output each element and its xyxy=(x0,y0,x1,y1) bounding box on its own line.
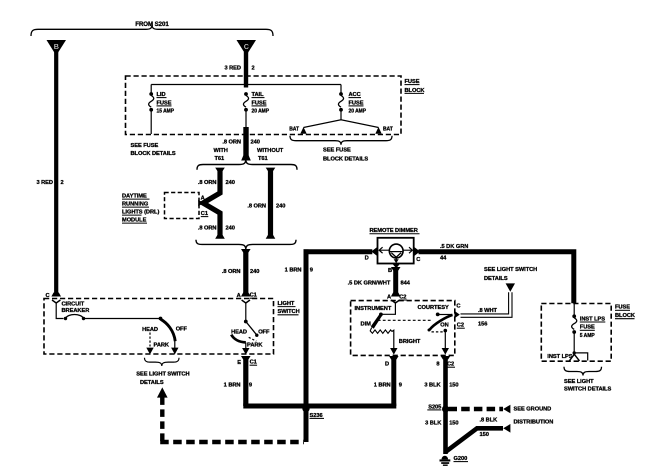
pin 8 / C2 courtesy exit xyxy=(442,348,449,355)
svg-text:BRIGHT: BRIGHT xyxy=(399,339,421,345)
pin E / C1 light switch exit xyxy=(245,343,247,349)
svg-text:150: 150 xyxy=(480,432,489,438)
svg-text:PARK: PARK xyxy=(154,343,170,349)
svg-text:.8 ORN: .8 ORN xyxy=(222,139,241,145)
svg-text:HEAD: HEAD xyxy=(142,327,158,333)
light switch dashed box (instrument/courtesy section) xyxy=(351,301,455,356)
svg-text:3 RED: 3 RED xyxy=(224,66,241,72)
svg-text:15 AMP: 15 AMP xyxy=(157,109,175,115)
svg-text:1 BRN: 1 BRN xyxy=(285,268,302,274)
svg-text:1 BRN: 1 BRN xyxy=(374,382,391,388)
svg-text:240: 240 xyxy=(226,226,235,232)
svg-text:BLOCK DETAILS: BLOCK DETAILS xyxy=(131,151,176,157)
svg-text:INST LPS: INST LPS xyxy=(547,354,572,360)
connector B xyxy=(47,40,67,56)
svg-text:DIM: DIM xyxy=(361,322,372,328)
svg-text:240: 240 xyxy=(276,203,285,209)
splice S236 xyxy=(302,405,309,412)
svg-text:DISTRIBUTION: DISTRIBUTION xyxy=(514,419,554,425)
pin D remote dimmer xyxy=(371,247,377,256)
BAT terminal right xyxy=(375,127,381,134)
inst lps output node xyxy=(573,351,576,354)
wire fuse feed bus xyxy=(151,84,341,86)
svg-text:B: B xyxy=(54,44,59,51)
svg-text:156: 156 xyxy=(478,321,487,327)
svg-text:HEAD: HEAD xyxy=(231,329,247,335)
light switch dashed box (headlamp section) xyxy=(44,299,274,355)
wire .8 ORN 240 left branch (with T61, via DRL) xyxy=(215,168,225,171)
svg-text:9: 9 xyxy=(310,268,313,274)
svg-text:D: D xyxy=(385,361,389,367)
svg-text:240: 240 xyxy=(251,139,260,145)
svg-text:150: 150 xyxy=(449,421,458,427)
svg-text:9: 9 xyxy=(399,382,402,388)
pin B remote dimmer xyxy=(392,264,400,269)
wire .8 WHT 156 (double line) xyxy=(461,292,513,317)
wire .8 BLK 150 branch xyxy=(445,428,503,452)
svg-text:DETAILS: DETAILS xyxy=(484,276,508,282)
arrow to light switch details xyxy=(506,283,515,291)
svg-text:ON: ON xyxy=(440,322,448,328)
wire dashed to light switch details xyxy=(160,397,164,442)
fuse F4 INST LPS 5A xyxy=(573,304,575,316)
svg-text:C: C xyxy=(244,44,249,51)
svg-text:.8 ORN: .8 ORN xyxy=(247,203,266,209)
svg-text:E: E xyxy=(237,360,241,366)
svg-text:240: 240 xyxy=(226,180,235,186)
svg-text:20 AMP: 20 AMP xyxy=(252,109,270,115)
svg-text:SEE LIGHT SWITCH: SEE LIGHT SWITCH xyxy=(484,267,537,273)
arrow to details xyxy=(157,387,168,397)
svg-text:FROM S201: FROM S201 xyxy=(135,21,169,28)
svg-text:.8 ORN: .8 ORN xyxy=(222,269,241,275)
BAT terminal left xyxy=(300,127,306,134)
svg-text:SWITCH DETAILS: SWITCH DETAILS xyxy=(564,386,611,392)
svg-text:WITHOUT: WITHOUT xyxy=(257,148,284,154)
svg-text:.8 BLK: .8 BLK xyxy=(480,417,499,423)
svg-text:OFF: OFF xyxy=(258,329,270,335)
svg-text:BREAKER: BREAKER xyxy=(62,308,90,314)
fuse F3 ACC 20A xyxy=(340,85,342,93)
svg-text:20 AMP: 20 AMP xyxy=(349,109,367,115)
module DRL (daytime running lights) xyxy=(165,193,200,219)
wire .8 ORN 240 (tail fuse output) xyxy=(243,127,248,159)
svg-text:INSTRUMENT: INSTRUMENT xyxy=(355,306,392,312)
svg-text:44: 44 xyxy=(440,255,447,261)
svg-text:844: 844 xyxy=(401,280,411,286)
svg-text:BAT: BAT xyxy=(289,127,299,133)
wire .5 DK GRN 44 xyxy=(419,252,574,303)
wire breaker to switch pivot xyxy=(85,318,161,320)
switch details bracket (left) xyxy=(145,358,180,366)
svg-text:8: 8 xyxy=(436,362,439,368)
svg-text:.8 ORN: .8 ORN xyxy=(198,226,217,232)
svg-text:DETAILS: DETAILS xyxy=(140,380,164,386)
svg-text:2: 2 xyxy=(61,180,64,186)
module U1 remote dimmer xyxy=(378,238,414,264)
wire to bright terminal xyxy=(392,330,394,348)
svg-text:.8 ORN: .8 ORN xyxy=(198,180,217,186)
svg-text:3 BLK: 3 BLK xyxy=(424,382,441,388)
T61 split bracket (top) xyxy=(197,159,297,170)
svg-text:CIRCUIT: CIRCUIT xyxy=(62,301,85,307)
wire dimmer feed down to S236 xyxy=(304,249,309,442)
svg-text:SEE GROUND: SEE GROUND xyxy=(514,406,552,412)
pin A / C2 instrument switch connector xyxy=(391,293,401,297)
svg-text:PARK: PARK xyxy=(247,343,263,349)
svg-text:3 RED: 3 RED xyxy=(36,180,53,186)
svg-text:REMOTE DIMMER: REMOTE DIMMER xyxy=(370,228,418,234)
svg-text:SEE LIGHT SWITCH: SEE LIGHT SWITCH xyxy=(136,372,189,378)
svg-text:G200: G200 xyxy=(454,456,468,462)
svg-text:A: A xyxy=(387,294,391,300)
wire dimmer horizontal run xyxy=(304,249,373,254)
switch SW1 head/off/park xyxy=(159,317,163,321)
pin A / C1 light switch connector xyxy=(241,293,251,297)
svg-text:COURTESY: COURTESY xyxy=(418,305,449,311)
svg-text:3 BLK: 3 BLK xyxy=(425,421,442,427)
svg-text:OFF: OFF xyxy=(176,326,188,332)
wire dashed to ground distribution xyxy=(449,407,504,411)
svg-text:WITH: WITH xyxy=(214,148,228,154)
svg-text:SEE LIGHT: SEE LIGHT xyxy=(564,379,594,385)
wire 3 RED 2 (left) xyxy=(54,52,58,296)
wire .8 ORN 240 to light switch xyxy=(241,249,251,253)
svg-text:SEE FUSE: SEE FUSE xyxy=(323,148,351,154)
wire 3 BLK 150 xyxy=(443,357,448,409)
fuse block dashed box (inst lps) xyxy=(541,304,611,362)
fuse block dashed box xyxy=(126,76,402,135)
svg-text:240: 240 xyxy=(250,269,259,275)
wire 1 BRN 9 (park lamps feed) xyxy=(243,357,248,406)
svg-text:BLOCK DETAILS: BLOCK DETAILS xyxy=(323,157,368,163)
wire ACC to BAT terminals xyxy=(340,112,342,120)
node S201 bracket xyxy=(31,25,273,37)
svg-text:D: D xyxy=(365,256,369,262)
wire .8 ORN 240 right branch (without T61) xyxy=(266,168,276,171)
wire 1 BRN 9 (bright feed to ground bus) xyxy=(391,357,396,406)
svg-text:BAT: BAT xyxy=(383,127,393,133)
mechanical link dashed xyxy=(378,319,432,321)
svg-text:.8 WHT: .8 WHT xyxy=(478,308,498,314)
splice S205 xyxy=(442,406,449,413)
svg-text:150: 150 xyxy=(449,382,458,388)
T61 merge bracket (bottom) xyxy=(196,240,296,250)
wire 3 BLK 150 to G200 xyxy=(443,409,448,454)
ground G200 xyxy=(442,456,449,460)
wire .5 DK GRN/WHT 844 xyxy=(391,267,401,271)
rheostat symbol xyxy=(389,244,403,258)
wire ground bus to S236 xyxy=(246,404,394,407)
svg-text:SEE FUSE: SEE FUSE xyxy=(131,143,159,149)
fuse F1 LID 15A xyxy=(150,85,152,93)
svg-text:C: C xyxy=(456,303,460,309)
svg-text:B: B xyxy=(388,268,392,274)
svg-text:1 BRN: 1 BRN xyxy=(224,383,241,389)
pin C remote dimmer xyxy=(414,247,420,256)
resistor (dimmer rheostat) xyxy=(370,328,392,334)
svg-text:C: C xyxy=(45,293,49,299)
svg-text:T61: T61 xyxy=(258,156,268,162)
svg-text:.5 DK GRN: .5 DK GRN xyxy=(440,244,468,250)
fuse F2 TAIL 20A xyxy=(244,92,248,96)
svg-text:2: 2 xyxy=(252,66,255,72)
pin D instrument switch exit xyxy=(390,348,397,355)
connector C xyxy=(237,40,257,56)
svg-text:A: A xyxy=(201,195,205,201)
BAT bracket xyxy=(290,136,392,145)
svg-text:C: C xyxy=(416,257,420,263)
wire 3 RED 2 (from C) xyxy=(244,52,248,88)
svg-text:.5 DK GRN/WHT: .5 DK GRN/WHT xyxy=(348,280,391,286)
pin A / C1 of DRL module xyxy=(198,200,203,206)
switch details bracket (right) xyxy=(564,367,602,376)
svg-text:T61: T61 xyxy=(215,156,225,162)
svg-text:9: 9 xyxy=(249,383,252,389)
svg-text:5 AMP: 5 AMP xyxy=(580,333,596,339)
switch SW2 head/off/park xyxy=(245,303,247,321)
